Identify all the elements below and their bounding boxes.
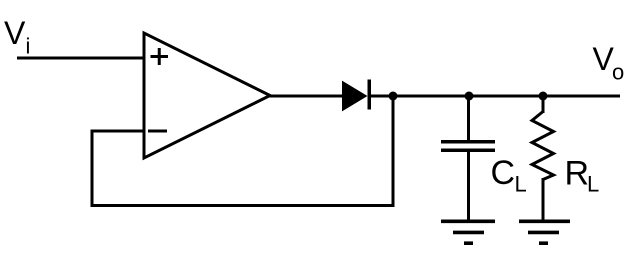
wire: op-amp output to diode anode xyxy=(268,95,344,98)
wire: feedback to op-amp inverting input xyxy=(92,130,145,133)
svg-text:V: V xyxy=(4,15,26,51)
wire: diode cathode to Vo xyxy=(369,95,620,98)
svg-text:C: C xyxy=(491,154,516,192)
wire: feedback vertical (right side) xyxy=(392,96,395,207)
diode D1 xyxy=(343,80,372,111)
wire: junction to capacitor top plate xyxy=(467,96,470,140)
svg-text:R: R xyxy=(565,155,590,193)
ground (capacitor) xyxy=(441,221,495,243)
svg-text:i: i xyxy=(26,34,31,59)
node: capacitor junction xyxy=(465,92,474,101)
wire: feedback bottom horizontal xyxy=(91,204,395,207)
wire: Vi input to op-amp non-inverting input xyxy=(17,57,145,60)
node: resistor junction xyxy=(539,92,548,101)
svg-text:L: L xyxy=(515,172,527,197)
svg-text:L: L xyxy=(587,172,599,197)
node: feedback junction xyxy=(389,92,398,101)
wire: junction to resistor top xyxy=(542,96,545,113)
resistor RL xyxy=(532,112,554,180)
wire: feedback vertical (left side) xyxy=(91,130,94,208)
ground (resistor) xyxy=(519,221,570,243)
capacitor CL xyxy=(441,142,495,151)
op-amp U1 xyxy=(144,33,270,158)
wire: resistor bottom to ground xyxy=(542,178,545,221)
wire: capacitor bottom plate to ground xyxy=(467,152,470,221)
svg-text:o: o xyxy=(612,60,624,85)
